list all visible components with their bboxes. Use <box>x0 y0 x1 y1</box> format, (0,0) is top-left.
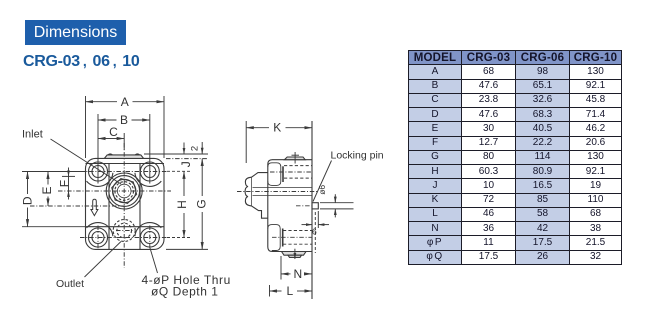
svg-text:Outlet: Outlet <box>56 278 84 290</box>
svg-text:N: N <box>293 267 302 281</box>
svg-text:Locking pin: Locking pin <box>331 150 384 162</box>
svg-text:F: F <box>57 180 71 187</box>
svg-text:2: 2 <box>190 146 201 151</box>
svg-text:H: H <box>175 200 189 209</box>
svg-text:G: G <box>195 199 209 208</box>
svg-text:6: 6 <box>312 227 317 237</box>
svg-text:ø6: ø6 <box>317 185 327 195</box>
svg-text:Inlet: Inlet <box>22 129 43 141</box>
svg-text:A: A <box>121 95 129 109</box>
svg-text:L: L <box>286 284 293 298</box>
svg-text:øQ Depth 1: øQ Depth 1 <box>151 285 219 299</box>
svg-text:C: C <box>109 125 118 139</box>
svg-text:K: K <box>273 121 281 135</box>
svg-text:J: J <box>179 161 193 167</box>
svg-text:E: E <box>40 186 54 194</box>
svg-text:B: B <box>120 113 128 127</box>
svg-text:D: D <box>20 196 34 205</box>
